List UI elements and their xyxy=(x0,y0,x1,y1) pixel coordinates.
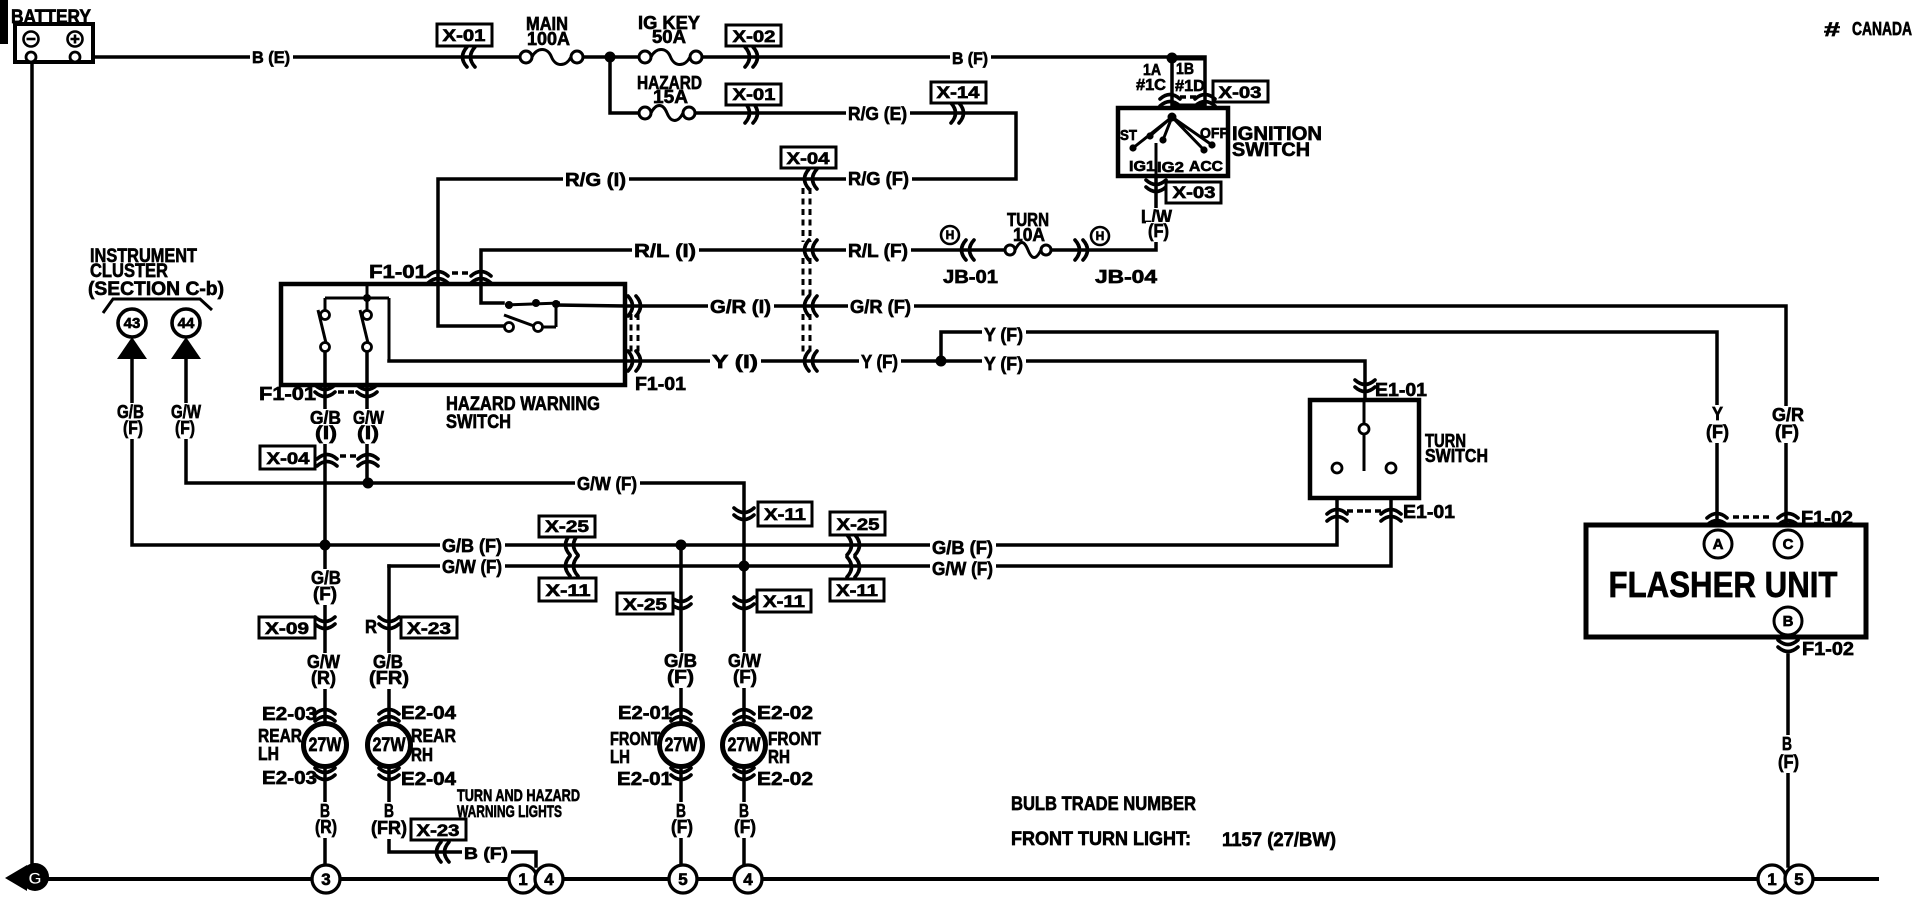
fuse HAZARD 15A xyxy=(637,73,702,121)
label Y (F) flasher xyxy=(1710,405,1726,425)
svg-text:REAR: REAR xyxy=(411,726,456,746)
svg-text:27W: 27W xyxy=(309,735,342,756)
label G/W (I) xyxy=(351,409,387,429)
connector label X-11 mid xyxy=(830,579,884,601)
svg-text:(F): (F) xyxy=(123,418,143,438)
label Y (F) lower xyxy=(982,355,1026,375)
connector JB-04 xyxy=(1075,227,1157,287)
label Y (F) xyxy=(859,353,901,373)
svg-text:IG1: IG1 xyxy=(1129,158,1155,175)
svg-text:(F): (F) xyxy=(734,817,756,837)
label R/L (I) xyxy=(632,242,699,262)
svg-text:(F): (F) xyxy=(313,584,337,604)
svg-text:X-11: X-11 xyxy=(764,505,806,524)
hazard warning switch xyxy=(281,284,625,385)
instrument cluster indicators 43 44 xyxy=(88,246,224,359)
svg-text:H: H xyxy=(946,228,955,242)
svg-text:F1-01: F1-01 xyxy=(369,262,427,282)
label B (F) front RH xyxy=(737,802,752,822)
svg-text:JB-01: JB-01 xyxy=(943,267,998,287)
wire hazard fuse branch xyxy=(610,57,645,113)
flasher terminal C xyxy=(1774,530,1802,558)
svg-text:LH: LH xyxy=(610,747,630,767)
svg-text:X-25: X-25 xyxy=(837,515,880,534)
connector F1-02 top xyxy=(1707,514,1727,526)
svg-text:50A: 50A xyxy=(652,27,686,47)
lamp REAR LH 27W xyxy=(258,704,347,788)
svg-text:#1D: #1D xyxy=(1175,78,1205,95)
wire Y(I) Y(F) to turn switch xyxy=(389,361,1365,400)
flasher terminal A xyxy=(1704,530,1732,558)
connector X-02 on B(F) xyxy=(745,47,758,67)
svg-text:X-04: X-04 xyxy=(787,149,831,168)
svg-text:E1-01: E1-01 xyxy=(1375,380,1427,400)
svg-text:E2-03: E2-03 xyxy=(262,768,317,788)
svg-text:R/L (I): R/L (I) xyxy=(634,241,696,261)
svg-text:R: R xyxy=(365,617,377,637)
svg-text:#1C: #1C xyxy=(1136,77,1166,94)
label L/W (F) xyxy=(1139,208,1175,228)
junction hazard tap xyxy=(605,52,616,63)
svg-text:Y: Y xyxy=(1712,404,1723,424)
svg-text:X-01: X-01 xyxy=(443,26,486,45)
connector X-03 pins 1A 1B #1C #1D xyxy=(1136,59,1205,105)
wire B(F) xyxy=(696,57,1205,108)
label R/G (I) xyxy=(563,171,629,191)
wire to FRONT RH lamp xyxy=(742,566,746,865)
connector X-09 xyxy=(315,617,335,629)
svg-text:G/B (F): G/B (F) xyxy=(442,536,502,556)
connector label X-09 xyxy=(259,617,315,638)
label G/W (R) xyxy=(305,653,343,673)
connector label X-23 bottom xyxy=(411,819,466,840)
svg-text:X-04: X-04 xyxy=(267,449,311,468)
svg-text:G/R (I): G/R (I) xyxy=(710,297,771,317)
svg-text:4: 4 xyxy=(743,870,753,889)
svg-text:F1-02: F1-02 xyxy=(1801,508,1853,528)
svg-text:43: 43 xyxy=(124,315,141,332)
fuse IG KEY 50A xyxy=(638,13,702,65)
svg-text:(F): (F) xyxy=(667,667,694,687)
label B (F) flasher xyxy=(1780,735,1795,755)
ground point 1 right xyxy=(1758,865,1786,893)
connector label X-11 left xyxy=(539,578,596,601)
wire R/G(E) R/G(F) R/G(I) xyxy=(438,113,1016,326)
wire G/W(F) bus to turn switch xyxy=(389,473,1391,566)
svg-text:FRONT TURN LIGHT:: FRONT TURN LIGHT: xyxy=(1011,829,1191,850)
svg-text:G: G xyxy=(28,869,41,888)
connector F1-01 right chevrons xyxy=(628,296,641,316)
ground bus xyxy=(49,877,1877,881)
svg-text:(F): (F) xyxy=(1775,422,1799,442)
lamp REAR RH 27W xyxy=(368,703,457,789)
junction ignition feed xyxy=(1167,53,1178,64)
wire battery ground drop xyxy=(30,62,34,864)
svg-text:E2-01: E2-01 xyxy=(617,769,672,789)
connector X-14 on R/G xyxy=(951,103,964,123)
svg-text:X-23: X-23 xyxy=(407,619,451,638)
svg-text:#: # xyxy=(1824,20,1841,41)
wire to REAR RH lamp, B(FR), B(F) jog xyxy=(389,566,536,866)
svg-text:Y (F): Y (F) xyxy=(861,352,898,372)
svg-text:(F): (F) xyxy=(733,667,757,687)
ground point 1 xyxy=(509,865,537,893)
label G/R (F) xyxy=(848,298,914,318)
wire R/L(F) R/L(I) xyxy=(481,250,1004,303)
label R/L (F) xyxy=(846,242,911,262)
wire Y(F) to flasher A xyxy=(941,332,1717,525)
label G/R (F) flasher xyxy=(1770,406,1807,426)
svg-text:(F): (F) xyxy=(175,418,195,438)
fuse TURN 10A xyxy=(1005,210,1051,258)
connector label X-01 xyxy=(437,24,492,46)
svg-text:G/B (F): G/B (F) xyxy=(932,538,993,558)
connector X-04 vertical pair xyxy=(317,455,337,467)
svg-text:OFF: OFF xyxy=(1200,125,1228,142)
wire hazard switch G/W leg xyxy=(365,351,369,483)
label B (R) xyxy=(318,802,333,822)
svg-text:REAR: REAR xyxy=(258,726,302,746)
svg-text:F1-01: F1-01 xyxy=(259,384,316,404)
svg-text:E2-04: E2-04 xyxy=(401,769,456,789)
connector label X-25 left xyxy=(539,516,595,537)
svg-text:H: H xyxy=(1096,229,1105,243)
svg-text:X-23: X-23 xyxy=(417,821,460,840)
svg-text:(R): (R) xyxy=(311,668,336,688)
svg-text:F1-02: F1-02 xyxy=(1802,639,1854,659)
svg-text:X-11: X-11 xyxy=(546,581,591,600)
label G/W (F) bus xyxy=(440,558,505,578)
wire B(F) flasher to ground xyxy=(1786,655,1790,866)
connector X-04 on harness (dashed) xyxy=(805,169,818,189)
svg-text:B: B xyxy=(1782,734,1792,754)
label B (FR) xyxy=(382,802,397,822)
junction Y(F) split xyxy=(936,356,947,367)
svg-text:4: 4 xyxy=(544,870,554,889)
battery xyxy=(11,7,93,62)
wire hazard switch G/B leg to REAR LH lamp xyxy=(323,351,327,865)
svg-text:1B: 1B xyxy=(1176,61,1194,78)
svg-text:BULB TRADE NUMBER: BULB TRADE NUMBER xyxy=(1011,794,1196,815)
connector X-01 on B(E) xyxy=(463,47,476,67)
svg-text:SWITCH: SWITCH xyxy=(446,412,511,433)
svg-text:27W: 27W xyxy=(373,735,406,756)
svg-text:(I): (I) xyxy=(315,423,337,443)
label G/R (I) xyxy=(708,298,774,318)
label G/B (F) front LH xyxy=(662,652,700,672)
turn switch xyxy=(1310,400,1419,498)
svg-text:FRONT: FRONT xyxy=(610,729,660,749)
connector label X-11 front RH xyxy=(757,590,811,612)
connector X-11 mid xyxy=(847,557,860,577)
svg-text:E2-04: E2-04 xyxy=(401,703,456,723)
ground point 3 xyxy=(312,865,340,893)
svg-text:Y (I): Y (I) xyxy=(712,352,758,372)
connector X-11 left xyxy=(566,556,579,576)
svg-text:(I): (I) xyxy=(357,423,379,443)
svg-text:E1-01: E1-01 xyxy=(1403,502,1455,522)
svg-text:E2-02: E2-02 xyxy=(757,703,813,723)
connector F1-01 top xyxy=(428,272,448,284)
svg-text:44: 44 xyxy=(178,315,195,332)
connector label X-04 lower xyxy=(260,446,315,469)
connector X-25 front LH xyxy=(671,597,691,609)
connector label X-02 xyxy=(726,25,781,46)
svg-text:SWITCH: SWITCH xyxy=(1232,140,1310,161)
ground point 4 front RH xyxy=(734,865,762,893)
svg-text:CANADA: CANADA xyxy=(1852,19,1912,39)
svg-text:(SECTION C-b): (SECTION C-b) xyxy=(88,279,224,300)
connector X-04 dashed boundary xyxy=(803,188,810,353)
connector JB-01 xyxy=(941,226,998,287)
svg-text:JB-04: JB-04 xyxy=(1095,267,1157,287)
svg-text:Y (F): Y (F) xyxy=(984,354,1023,374)
svg-text:X-03: X-03 xyxy=(1219,83,1262,102)
svg-text:SWITCH: SWITCH xyxy=(1425,446,1488,466)
ground point 4 xyxy=(535,865,563,893)
svg-text:G/W (F): G/W (F) xyxy=(577,474,637,494)
svg-text:B: B xyxy=(1783,613,1794,630)
label B (E) xyxy=(250,49,293,68)
wire G/W(F) from instrument cluster xyxy=(186,360,744,566)
label G/B (F) bus right xyxy=(930,539,996,559)
connector X-03 bottom xyxy=(1146,180,1166,192)
svg-text:10A: 10A xyxy=(1013,225,1045,245)
svg-text:5: 5 xyxy=(678,870,687,889)
svg-text:(F): (F) xyxy=(1778,752,1799,772)
svg-text:100A: 100A xyxy=(527,29,570,49)
connector label X-03 top xyxy=(1213,81,1268,102)
svg-text:1: 1 xyxy=(1767,870,1776,889)
label G/W (F) upper xyxy=(575,475,640,495)
ground symbol G xyxy=(5,863,49,891)
svg-text:ACC: ACC xyxy=(1189,158,1223,175)
svg-text:X-25: X-25 xyxy=(545,517,589,536)
svg-text:A: A xyxy=(1713,536,1724,553)
fuse MAIN 100A xyxy=(520,14,583,65)
svg-text:(F): (F) xyxy=(671,817,693,837)
svg-text:R/G (E): R/G (E) xyxy=(848,104,907,124)
svg-text:E2-02: E2-02 xyxy=(757,769,813,789)
svg-text:X-25: X-25 xyxy=(623,595,667,614)
svg-text:B (F): B (F) xyxy=(464,844,508,863)
wire G/R(I) G/R(F) xyxy=(556,305,1786,525)
svg-text:G/R (F): G/R (F) xyxy=(850,297,911,317)
svg-text:15A: 15A xyxy=(653,87,688,107)
junction G/B bus front LH drop xyxy=(676,540,687,551)
svg-text:(R): (R) xyxy=(315,817,337,837)
svg-text:X-11: X-11 xyxy=(836,581,878,600)
svg-text:RH: RH xyxy=(768,747,790,767)
label G/B (F) rear LH xyxy=(309,569,344,589)
label B (F) xyxy=(950,50,991,69)
connector label X-25 front LH xyxy=(617,593,673,614)
junction G/B bus at X-04 leg xyxy=(320,540,331,551)
svg-text:(FR): (FR) xyxy=(371,818,407,838)
svg-text:B (F): B (F) xyxy=(952,49,988,68)
svg-text:F1-01: F1-01 xyxy=(635,374,686,394)
connector label X-25 mid xyxy=(830,512,885,535)
svg-text:RH: RH xyxy=(411,745,433,765)
svg-text:C: C xyxy=(1783,536,1794,553)
label G/B (F) bus xyxy=(440,537,505,557)
svg-text:5: 5 xyxy=(1794,870,1803,889)
svg-text:X-14: X-14 xyxy=(937,83,981,102)
svg-text:X-11: X-11 xyxy=(763,592,805,611)
ignition switch xyxy=(1118,108,1228,176)
svg-text:G/W (F): G/W (F) xyxy=(932,559,993,579)
connector label X-03 bottom xyxy=(1166,182,1221,203)
svg-text:X-03: X-03 xyxy=(1173,183,1216,202)
connector E1-01 top xyxy=(1355,380,1375,392)
svg-text:(F): (F) xyxy=(1706,422,1729,442)
connector label X-04 xyxy=(781,147,836,168)
svg-text:IG2: IG2 xyxy=(1157,159,1184,176)
wire B(E) xyxy=(93,55,645,59)
svg-text:R/G (I): R/G (I) xyxy=(565,170,626,190)
svg-text:3: 3 xyxy=(321,870,330,889)
svg-text:27W: 27W xyxy=(665,735,698,756)
svg-text:1: 1 xyxy=(518,870,527,889)
label R/G (E) xyxy=(846,105,910,125)
svg-text:G/W (F): G/W (F) xyxy=(442,557,502,577)
svg-text:27W: 27W xyxy=(728,735,761,756)
connector X-23 with R xyxy=(379,617,399,629)
svg-text:Y (F): Y (F) xyxy=(984,325,1023,345)
flasher unit xyxy=(1586,525,1866,637)
connector X-01 on R/G(E) xyxy=(745,103,758,123)
svg-text:FLASHER UNIT: FLASHER UNIT xyxy=(1609,564,1838,605)
svg-text:X-09: X-09 xyxy=(265,619,309,638)
svg-text:(FR): (FR) xyxy=(369,668,409,688)
label G/W (F) bus right xyxy=(930,560,996,580)
connector F1-01 bottom xyxy=(315,385,335,397)
svg-text:WARNING LIGHTS: WARNING LIGHTS xyxy=(457,802,562,821)
connector F1-02 bottom xyxy=(1778,640,1798,652)
connector E1-01 bottom xyxy=(1327,510,1347,522)
connector F1-01 dashed boundary xyxy=(631,314,638,353)
label G/W (F) front RH xyxy=(726,652,764,672)
junction G/W bus front RH drop xyxy=(739,561,750,572)
svg-text:LH: LH xyxy=(258,744,279,764)
lamp FRONT LH 27W xyxy=(610,703,703,789)
connector label X-11 upper xyxy=(758,502,812,526)
connector X-25 mid xyxy=(847,535,860,555)
svg-text:X-01: X-01 xyxy=(733,85,776,104)
flasher terminal B xyxy=(1774,607,1802,635)
label G/B (F) cluster xyxy=(115,403,147,423)
label Y (I) xyxy=(710,353,761,373)
label G/B (I) xyxy=(308,409,344,429)
ground point 5 xyxy=(669,865,697,893)
svg-text:1157 (27/BW): 1157 (27/BW) xyxy=(1222,830,1336,851)
label G/W (F) cluster xyxy=(169,403,204,423)
connector label X-23 xyxy=(401,617,457,638)
connector X-11 front RH xyxy=(734,597,754,609)
wire to FRONT LH lamp xyxy=(679,545,683,865)
svg-text:R/L (F): R/L (F) xyxy=(848,241,908,261)
svg-text:ST: ST xyxy=(1120,127,1137,144)
svg-text:B (E): B (E) xyxy=(252,48,290,67)
svg-text:R/G (F): R/G (F) xyxy=(848,169,909,189)
wire TURN fuse to ignition, L/W(F) xyxy=(1052,142,1156,250)
connector X-03 top chevrons xyxy=(1160,95,1180,107)
ground point 5 right xyxy=(1785,865,1813,893)
connector X-11 upper vertical xyxy=(734,508,754,520)
svg-text:E2-03: E2-03 xyxy=(262,704,317,724)
lamp FRONT RH 27W xyxy=(723,703,822,789)
svg-text:X-02: X-02 xyxy=(733,27,776,46)
label B (F) jog xyxy=(462,845,511,864)
junction G/W at X-04 leg xyxy=(363,478,374,489)
svg-text:E2-01: E2-01 xyxy=(618,703,672,723)
label R/G (F) xyxy=(846,170,912,190)
label G/B (FR) xyxy=(371,653,406,673)
connector label X-01 hazard xyxy=(726,84,781,105)
svg-text:(F): (F) xyxy=(1148,221,1169,241)
label Y (F) upper xyxy=(982,326,1026,346)
wire G/B(F) bus from instrument cluster to turn switch xyxy=(132,360,1337,545)
label B (F) front LH xyxy=(674,802,689,822)
connector X-25 left xyxy=(566,535,579,555)
connector label X-14 xyxy=(931,82,986,103)
svg-text:FRONT: FRONT xyxy=(768,729,821,749)
